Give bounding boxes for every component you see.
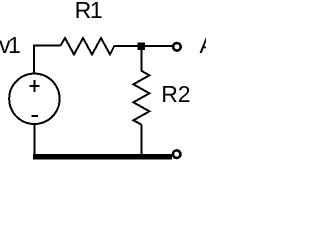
svg-text:R2: R2: [161, 81, 190, 107]
wire junction to R2: [140, 50, 142, 71]
voltage source v1: [9, 74, 59, 124]
junction node (square dot): [138, 43, 146, 51]
svg-text:A: A: [200, 32, 207, 58]
wire v1 bottom to rail: [34, 124, 36, 156]
resistor R2: [133, 71, 149, 125]
svg-text:v1: v1: [0, 32, 20, 58]
resistor R1: [61, 38, 115, 55]
wire R2 to bottom rail: [140, 125, 142, 156]
v1 plus sign: [29, 85, 39, 87]
bottom-right terminal (open circle): [173, 150, 181, 158]
wire R1 to junction: [115, 45, 139, 47]
svg-text:R1: R1: [75, 0, 102, 23]
wire junction to terminal A: [145, 45, 173, 47]
v1 minus sign: [32, 115, 38, 117]
wire from v1 top to R1 (corner): [34, 46, 61, 74]
bottom rail wire (thick): [33, 154, 172, 160]
terminal A (open circle): [173, 43, 181, 51]
